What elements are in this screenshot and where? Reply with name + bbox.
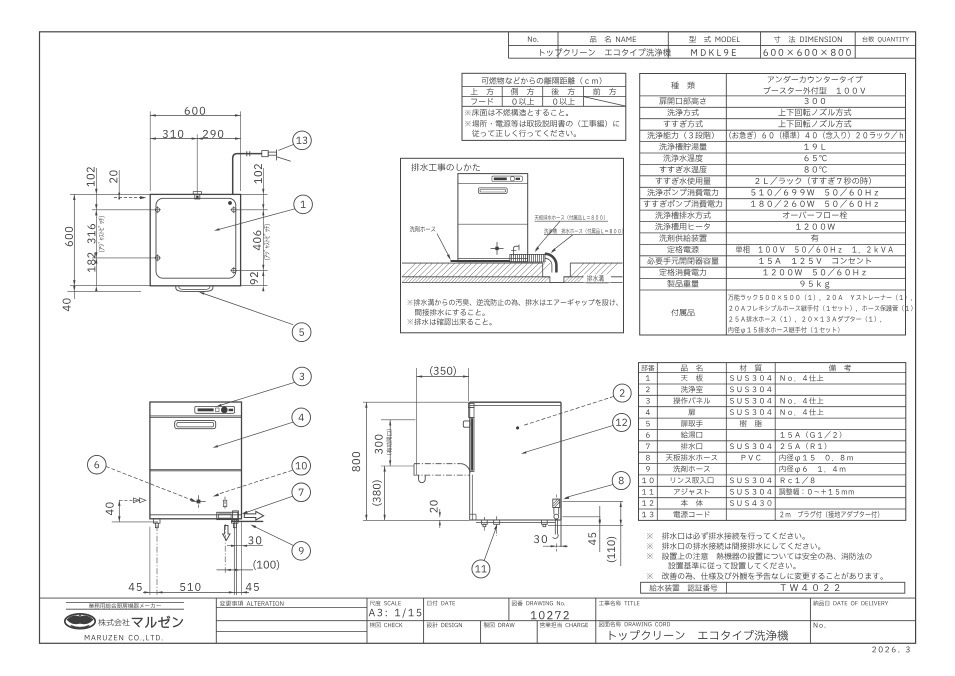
dim 800 side — [365, 402, 367, 520]
door bottom lines front — [150, 468, 242, 470]
detergent hose on floor — [451, 260, 511, 262]
dim chain right 102 406 92 — [241, 193, 268, 195]
tank hose label underline and leader — [544, 234, 623, 236]
dim 380 side — [384, 466, 386, 520]
dim 20 side — [439, 512, 441, 517]
rinse inlet hidden — [223, 500, 227, 506]
clearance table diagonal — [584, 97, 626, 107]
tank drain connection side — [494, 520, 500, 524]
certification number box — [641, 582, 905, 593]
dim 45 510 45 front — [143, 591, 249, 593]
dim 110 side — [620, 501, 622, 566]
parts table column dividers — [656, 363, 658, 521]
phantom dot balloon 2 — [516, 427, 519, 430]
side view rear edge — [560, 402, 562, 520]
mini machine handle — [478, 188, 507, 194]
front panel logo plate — [195, 406, 235, 413]
top hose label underline and leader — [535, 220, 609, 222]
floor surface — [402, 262, 543, 264]
balloon 7 — [292, 483, 311, 502]
front leg side — [482, 520, 488, 524]
balloon 12 — [613, 413, 631, 431]
dim 30 front — [227, 545, 263, 547]
mini hot water cross — [491, 247, 504, 249]
side view top edge — [363, 401, 470, 403]
drain direction arrow right — [244, 511, 263, 520]
balloon 13 — [293, 131, 312, 150]
balloon 4 — [292, 408, 311, 427]
floor hatching upper — [402, 263, 416, 277]
mini machine bottom lines — [458, 257, 528, 259]
dim 40 front — [118, 500, 120, 522]
door hinge arc — [460, 464, 470, 474]
open door handle hook — [419, 475, 426, 482]
drain elbow — [545, 254, 557, 273]
adjuster foot mid-left — [155, 256, 159, 260]
front view body outline — [150, 402, 242, 519]
open door phantom — [414, 463, 460, 465]
rear leg side — [542, 520, 548, 524]
balloon 2 — [613, 384, 631, 402]
power cord — [233, 154, 262, 195]
drain down arrow — [223, 526, 231, 541]
spec table row lines — [640, 95, 906, 97]
door bulge front — [176, 286, 213, 292]
left leg front — [154, 519, 160, 523]
drain outlet assembly — [217, 512, 238, 519]
certification box divider — [726, 582, 728, 593]
maruzen logo emblem — [65, 614, 95, 629]
hose outlet circle — [554, 514, 559, 519]
balloon 11 — [472, 560, 490, 578]
leader detergent hose label — [437, 234, 450, 258]
spec table box — [640, 74, 906, 336]
balloon 8 — [612, 472, 630, 490]
mini machine door line — [458, 223, 528, 225]
dim 100 front — [217, 569, 254, 571]
dim 45 side — [599, 506, 601, 552]
side right reference lines — [563, 500, 624, 502]
dim chain left 102 316 182 — [95, 168, 97, 286]
clearance table grid — [462, 86, 626, 88]
maker slogan rules — [66, 601, 184, 603]
balloon 6 circle — [88, 455, 107, 474]
side view bottom — [470, 519, 561, 521]
parts table row lines — [639, 372, 906, 374]
dim 300 side — [389, 420, 391, 466]
title table grid — [508, 32, 510, 58]
balloon 9 — [292, 542, 311, 561]
dim 30 side — [543, 545, 568, 547]
power plug — [262, 151, 268, 157]
adjuster foot front-left — [155, 208, 159, 212]
dim 350 side — [416, 368, 418, 475]
side view front edge — [469, 402, 471, 520]
hot water inlet cross hidden — [197, 500, 201, 504]
drain pit profile — [543, 263, 571, 282]
parts table box — [639, 363, 906, 521]
balloon 5 — [292, 323, 311, 342]
mini top hose pipe — [513, 246, 519, 256]
door handle side — [463, 421, 470, 427]
balloon 1 — [294, 195, 313, 214]
door top edge side — [468, 403, 474, 407]
tank drain hose stub — [231, 520, 263, 522]
top drain hose side — [553, 499, 560, 507]
dim 40 bottom left — [68, 290, 142, 292]
clearance table box — [462, 73, 626, 140]
front control panel lines — [150, 415, 242, 417]
right leg front — [232, 519, 238, 523]
mini machine panel line — [458, 183, 528, 185]
dim 600 left — [73, 194, 75, 285]
spec table column divider — [725, 74, 727, 336]
drain gutter label whiteout — [584, 274, 612, 282]
drain gutter label underline — [586, 282, 608, 284]
side view front bottom step — [470, 513, 476, 515]
title block grid — [215, 598, 217, 643]
front bottom extension lines — [149, 527, 151, 595]
balloon 10 circle — [292, 457, 311, 476]
dim 102 20 left extension lines — [70, 193, 150, 195]
floor lower band — [402, 276, 550, 278]
detergent hose position arrow — [114, 197, 141, 199]
dim 600 top — [149, 111, 151, 191]
dim 310 290 — [150, 138, 240, 140]
leader balloon 10 dashed — [217, 470, 293, 494]
rinse inlet dot — [228, 201, 231, 204]
body bottom line front — [150, 514, 242, 516]
hose below floor — [554, 519, 556, 535]
top view tank inner outline — [156, 198, 236, 278]
adjuster foot front-right — [232, 208, 236, 212]
balloon 3 — [293, 367, 312, 386]
door handle front — [175, 421, 216, 429]
leader balloon 6 dashed — [106, 466, 194, 500]
water inlet fitting — [195, 194, 200, 199]
adjuster foot rear-right — [232, 268, 236, 272]
title strip top border — [40, 597, 916, 599]
cord connector ticks — [246, 151, 248, 156]
mini machine outline — [458, 174, 528, 262]
top view body outline — [150, 194, 240, 285]
mini machine logo plate — [492, 176, 522, 181]
corrugated drain hose — [510, 254, 545, 262]
door closed side — [470, 417, 474, 471]
drain instruction box — [401, 158, 624, 332]
